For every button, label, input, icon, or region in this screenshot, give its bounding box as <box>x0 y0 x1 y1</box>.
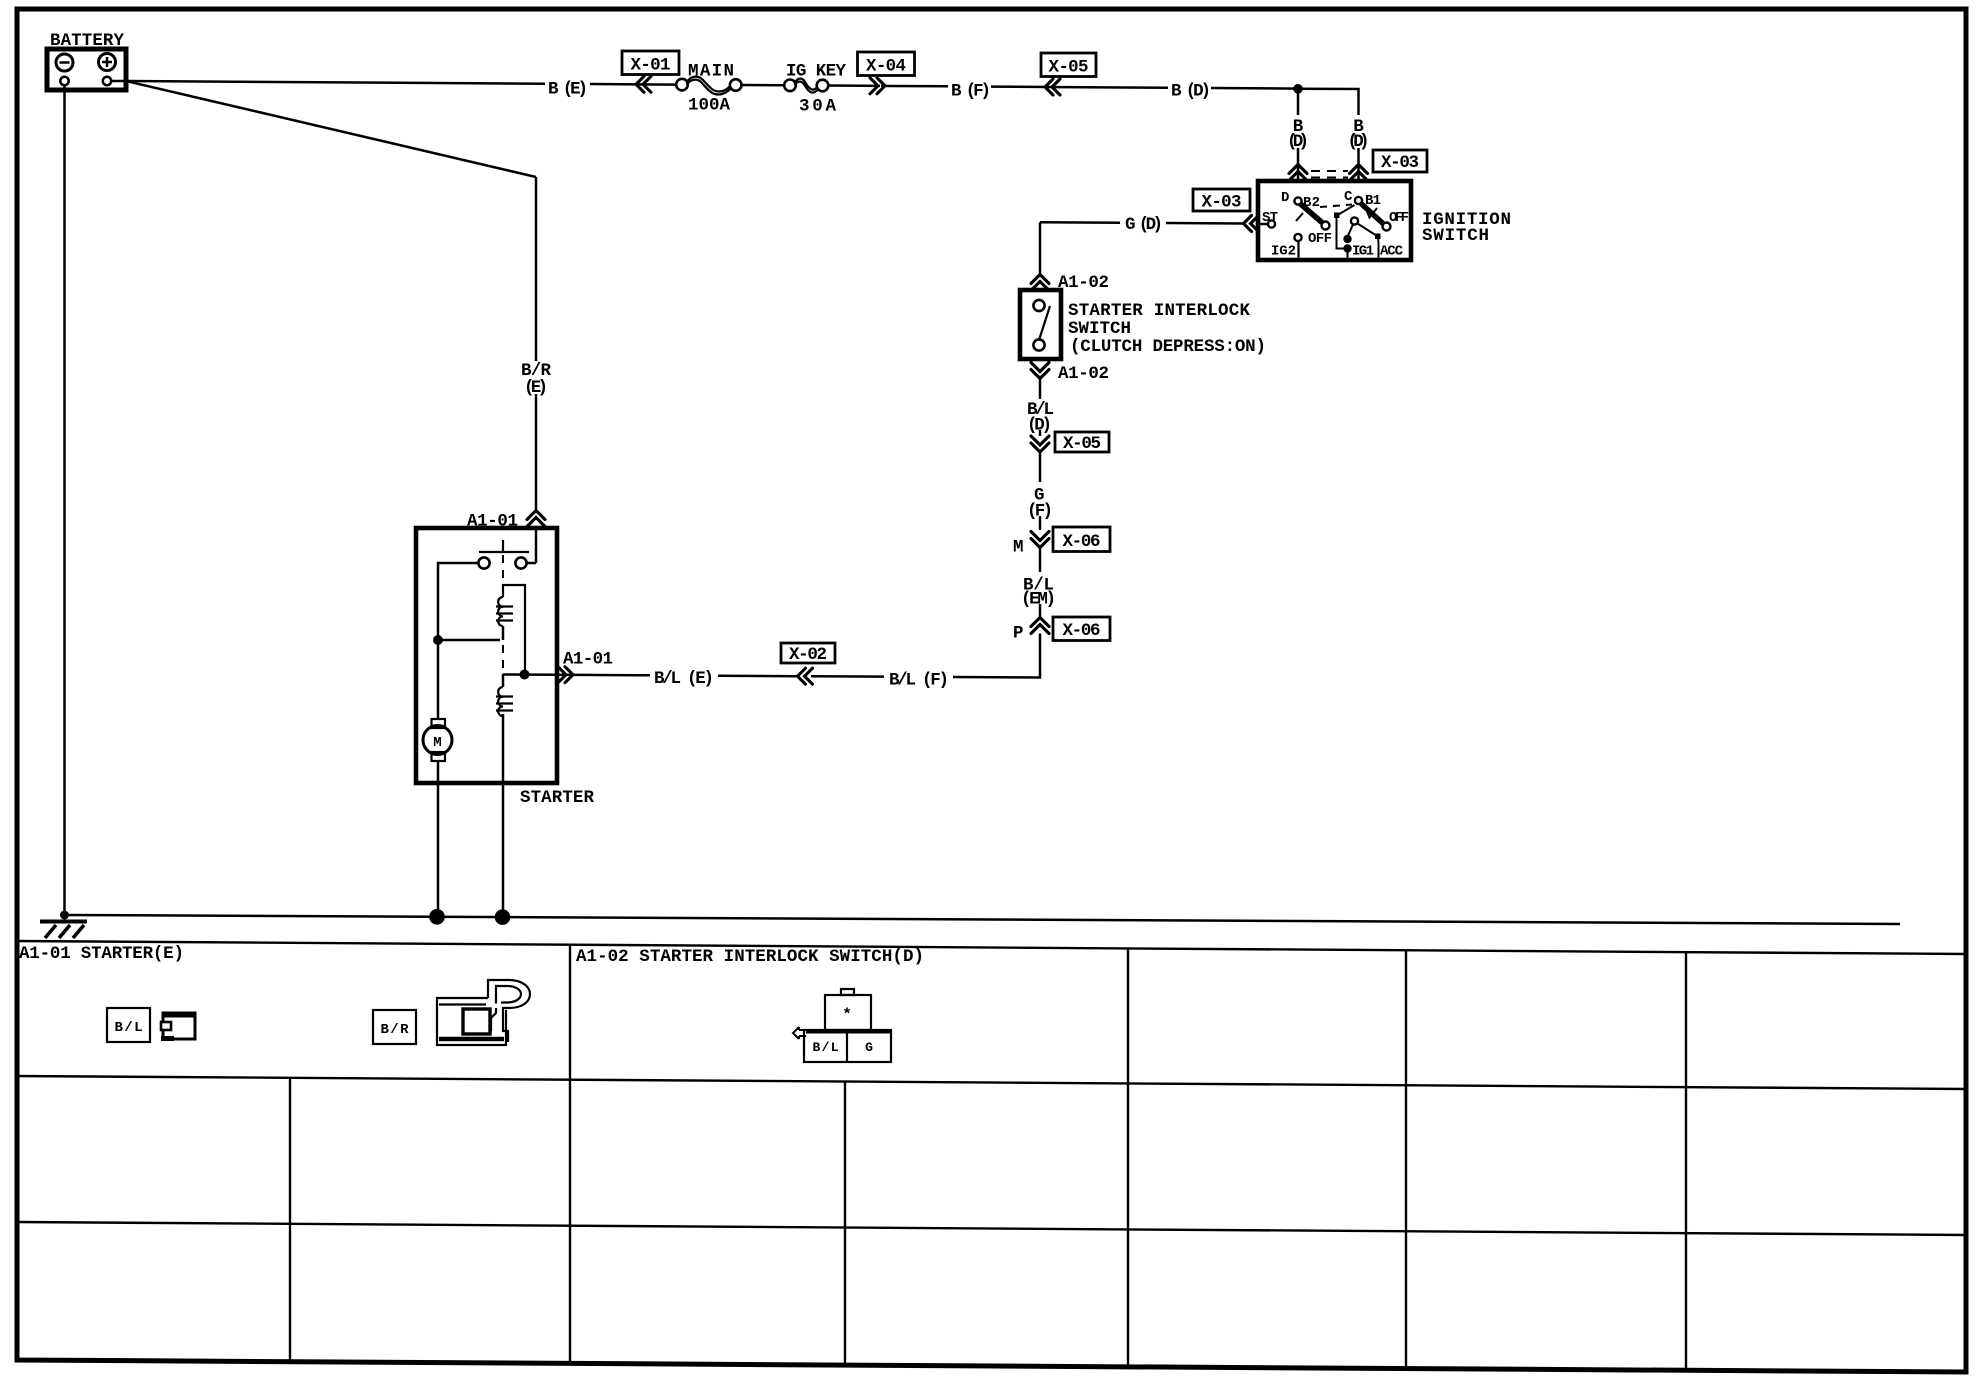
svg-text:B (D): B (D) <box>1171 82 1211 102</box>
svg-text:IG2: IG2 <box>1271 244 1296 260</box>
svg-text:B/L: B/L <box>813 1040 839 1055</box>
label B/R (table A1-01 cell) <box>373 1010 416 1044</box>
label IGNITION SWITCH <box>1422 210 1511 246</box>
junction coil ground <box>495 909 511 925</box>
svg-text:*: * <box>842 1006 852 1024</box>
connector A1-02 bottom <box>1031 363 1109 385</box>
svg-text:A1-02: A1-02 <box>1058 273 1109 293</box>
connector A1-02 top <box>1031 273 1109 293</box>
svg-text:IG KEY: IG KEY <box>786 62 846 82</box>
svg-text:G (D): G (D) <box>1125 215 1163 235</box>
wire B(E) battery to X-01 <box>111 81 676 85</box>
wire hold coil to ground <box>502 714 505 917</box>
svg-text:M: M <box>1013 538 1024 558</box>
svg-text:G: G <box>865 1040 873 1055</box>
connector X-02 <box>781 643 835 684</box>
svg-text:X-03: X-03 <box>1381 153 1419 173</box>
svg-text:(CLUTCH DEPRESS:ON): (CLUTCH DEPRESS:ON) <box>1070 337 1266 357</box>
pin ST <box>1258 210 1278 228</box>
wire G(F) <box>1039 516 1042 530</box>
svg-text:(D): (D) <box>1287 132 1309 152</box>
starter solenoid hold coil <box>496 674 513 716</box>
svg-text:C: C <box>1344 189 1353 205</box>
connector A1-01 top <box>467 511 545 532</box>
svg-text:MAIN: MAIN <box>688 62 734 82</box>
svg-text:SWITCH: SWITCH <box>1068 319 1131 339</box>
pin D <box>1281 190 1302 206</box>
svg-text:B (F): B (F) <box>951 82 991 102</box>
svg-text:X-05: X-05 <box>1049 58 1089 78</box>
svg-text:STARTER INTERLOCK: STARTER INTERLOCK <box>1068 301 1250 321</box>
lever B1 to OFF <box>1361 204 1391 231</box>
svg-text:30A: 30A <box>799 97 836 117</box>
svg-text:BATTERY: BATTERY <box>50 31 124 51</box>
svg-text:A1-01: A1-01 <box>563 650 613 670</box>
pin IG1 <box>1343 217 1374 259</box>
wire fuse to X-04 <box>829 84 881 87</box>
svg-text:P: P <box>1013 624 1024 644</box>
svg-text:X-01: X-01 <box>631 56 671 76</box>
svg-text:ACC: ACC <box>1380 244 1404 260</box>
wire between fuses <box>742 84 785 87</box>
battery <box>47 31 126 90</box>
svg-text:X-06: X-06 <box>1063 532 1101 552</box>
wire B/L(EM) <box>1039 604 1042 619</box>
ground symbol <box>40 922 87 939</box>
lever B2 to OFF <box>1296 204 1352 230</box>
svg-text:D: D <box>1281 190 1289 206</box>
starter interlock switch <box>1020 290 1061 359</box>
wire C to IG1 branch <box>1334 205 1355 249</box>
connector X-06 lower with pin P <box>1013 617 1110 644</box>
connector icon A1-02 interlock <box>793 989 892 1062</box>
pin C <box>1344 189 1362 205</box>
wire G(D) down to interlock switch <box>1039 222 1042 277</box>
connector icon A1-01 B/L terminal <box>161 1013 195 1041</box>
starter solenoid contacts <box>478 528 536 592</box>
label B/L(EM) <box>1021 576 1056 610</box>
svg-text:OFF: OFF <box>1389 210 1409 226</box>
connector X-05 <box>1041 53 1096 95</box>
wire B(D) to ignition switch pin D <box>1297 89 1300 183</box>
connector X-01 <box>622 51 679 92</box>
svg-text:IG1: IG1 <box>1352 244 1374 260</box>
svg-text:X-06: X-06 <box>1063 621 1101 641</box>
junction node B(D) <box>1293 84 1303 94</box>
starter solenoid pull-in coil <box>496 585 525 674</box>
label G(F) <box>1027 486 1053 522</box>
connector A1-01 starter side <box>558 650 613 683</box>
svg-text:(D): (D) <box>1027 416 1052 436</box>
wire motor to ground <box>437 761 440 917</box>
svg-text:B/L (F): B/L (F) <box>889 671 949 691</box>
label STARTER INTERLOCK SWITCH (CLUTCH DEPRESS:ON) <box>1068 301 1266 357</box>
ground bus wire <box>65 915 1901 924</box>
ignition switch box <box>1258 181 1411 260</box>
connector table grid <box>16 941 1967 1370</box>
wire B(D) to ignition switch pin C <box>1298 89 1359 183</box>
connector X-04 <box>858 52 915 94</box>
fuse IG KEY 30A <box>784 79 828 93</box>
svg-text:(EM): (EM) <box>1021 590 1056 610</box>
svg-text:SWITCH: SWITCH <box>1422 226 1489 246</box>
svg-text:(D): (D) <box>1348 132 1370 152</box>
svg-text:B/R: B/R <box>381 1022 410 1038</box>
wire contact to motor branch <box>438 563 478 719</box>
junction motor ground <box>429 909 445 925</box>
svg-text:OFF: OFF <box>1308 231 1332 247</box>
svg-text:A1-02 STARTER INTERLOCK SWITCH: A1-02 STARTER INTERLOCK SWITCH(D) <box>576 947 924 967</box>
svg-text:X-05: X-05 <box>1063 434 1101 454</box>
wire B(F) <box>881 86 1062 87</box>
svg-text:B/L: B/L <box>115 1020 143 1036</box>
pin ACC <box>1358 224 1404 260</box>
svg-text:X-04: X-04 <box>866 57 906 77</box>
wire solenoid common <box>438 639 500 642</box>
wire B/L(D) <box>1039 379 1042 483</box>
connector X-03 top <box>1289 150 1427 181</box>
svg-text:M: M <box>433 735 441 751</box>
wire battery negative to ground bus <box>60 86 69 920</box>
wire A1-01 internal to box edge <box>503 673 559 676</box>
label B/L (table A1-01 cell) <box>107 1008 150 1042</box>
svg-text:A1-02: A1-02 <box>1058 364 1109 384</box>
wire B/R(E) battery to starter <box>126 81 536 513</box>
wire G(D) ignition ST to interlock <box>1040 222 1244 223</box>
connector X-05 lower <box>1031 432 1109 454</box>
plunger link dashes <box>502 645 504 683</box>
connector X-03 left <box>1193 189 1259 232</box>
svg-text:(E): (E) <box>524 378 548 398</box>
svg-text:X-02: X-02 <box>789 645 827 665</box>
wire B(D) <box>1062 87 1298 89</box>
svg-text:STARTER: STARTER <box>520 788 594 808</box>
svg-text:100A: 100A <box>688 96 730 116</box>
svg-text:A1-01 STARTER(E): A1-01 STARTER(E) <box>19 944 184 964</box>
junction A1-01 output <box>520 670 530 680</box>
pin IG2 <box>1271 234 1302 260</box>
wire B/L(E) <box>559 675 798 677</box>
junction solenoid common <box>433 635 443 645</box>
connector X-06 upper with pin M <box>1013 527 1110 572</box>
label B/L(D) <box>1027 400 1054 436</box>
fuse MAIN 100A <box>676 77 741 95</box>
starter box <box>416 528 557 783</box>
svg-text:B/L (E): B/L (E) <box>654 669 714 689</box>
wire B/L(F) <box>811 634 1040 678</box>
svg-text:B (E): B (E) <box>548 80 588 100</box>
svg-text:X-03: X-03 <box>1202 193 1242 213</box>
starter motor M <box>423 719 452 761</box>
label B/R(E) <box>521 361 551 398</box>
connector icon A1-01 B/R ring terminal <box>437 980 530 1045</box>
